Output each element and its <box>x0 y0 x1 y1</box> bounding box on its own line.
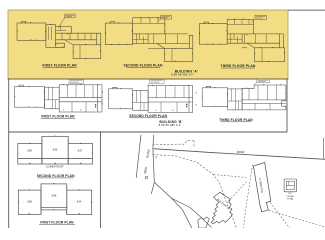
svg-text:ROAD: ROAD <box>145 148 151 158</box>
penthouse first floor dimension ticks <box>19 184 92 214</box>
svg-text:ROAD: ROAD <box>237 150 245 154</box>
building B third floor callout box <box>254 79 269 85</box>
building B third floor dimension ticks <box>202 85 285 110</box>
new road left edge <box>136 135 141 178</box>
building A footprint <box>253 162 270 212</box>
building A third floor dimension ticks <box>200 19 285 61</box>
catch basin mark <box>146 176 148 179</box>
svg-text:FIRST FLOOR PLAN: FIRST FLOOR PLAN <box>41 115 75 119</box>
svg-text:8.88: 8.88 <box>27 151 32 153</box>
middle band right border <box>286 79 288 132</box>
driveway branch line <box>172 198 212 227</box>
svg-text:8.88 89.985 S.F.: 8.88 89.985 S.F. <box>171 73 194 77</box>
sheet top edge line (right of yellow band) <box>288 9 325 11</box>
svg-text:8.88: 8.88 <box>27 202 32 204</box>
svg-text:SECOND FLOOR PLAN: SECOND FLOOR PLAN <box>129 114 167 118</box>
svg-text:THIRD FLOOR PLAN: THIRD FLOOR PLAN <box>221 64 256 68</box>
building A second floor dimension ticks <box>106 18 193 62</box>
svg-text:THIRD FLOOR PLAN: THIRD FLOOR PLAN <box>219 118 253 122</box>
building A second floor callout box <box>157 15 171 21</box>
svg-text:TOTAL: TOTAL <box>287 197 295 200</box>
yellow highlight band <box>8 10 288 79</box>
property diagonal line <box>154 182 192 228</box>
svg-text:30: 30 <box>156 155 159 159</box>
penthouse second floor dimension ticks <box>18 136 92 163</box>
building B second floor callout box <box>147 80 164 86</box>
building B third floor plan outline <box>202 85 286 110</box>
building A second floor plan outline <box>105 18 193 62</box>
building B second floor plan outline <box>109 86 193 113</box>
dashed parking line east toward sheet corner <box>269 211 325 228</box>
yellow band bottom border <box>8 78 288 80</box>
svg-text:SECOND FLOOR PLAN: SECOND FLOOR PLAN <box>37 174 75 178</box>
building A first floor dimension ticks <box>17 23 100 59</box>
building A first floor callout box <box>58 14 75 28</box>
building B first floor callout box <box>66 80 84 87</box>
building A first floor plan outline <box>17 21 101 58</box>
middle band left border <box>8 79 10 228</box>
svg-text:8.88 89.985 S.F.: 8.88 89.985 S.F. <box>159 123 182 127</box>
building B footprint <box>211 192 232 224</box>
building B first floor dimension ticks <box>15 85 103 111</box>
penthouse first floor plan outline <box>18 184 91 215</box>
building B first floor plan outline <box>15 85 102 112</box>
svg-text:8.88: 8.88 <box>52 196 57 198</box>
dashed crossing boundary <box>227 182 247 203</box>
sheet right edge (site plan) <box>323 138 325 159</box>
svg-text:NEW: NEW <box>143 166 148 174</box>
middle band bottom border <box>9 131 287 133</box>
svg-text:BUILDING 'B': BUILDING 'B' <box>216 198 230 210</box>
bottom-left box right border <box>100 132 102 228</box>
building A third floor callout box <box>251 15 266 23</box>
svg-text:SECOND FLOOR PLAN: SECOND FLOOR PLAN <box>124 63 163 67</box>
penthouse second floor plan outline <box>18 136 93 164</box>
svg-text:FIRST FLOOR PLAN: FIRST FLOOR PLAN <box>42 63 77 67</box>
svg-text:8.88: 8.88 <box>53 150 58 152</box>
dashed parcel boundary (west side) <box>153 155 237 228</box>
dashed parking line southeast of building A <box>270 203 289 229</box>
building B second floor dimension ticks <box>109 85 196 110</box>
road centerline (east-west) <box>153 149 325 160</box>
svg-text:8.87: 8.87 <box>78 151 83 153</box>
dashed line west of building A <box>244 165 253 229</box>
site legend box <box>284 179 297 192</box>
dashed setback line (north of road) <box>153 141 195 148</box>
new road right edge <box>151 135 154 194</box>
road name label on centerline <box>236 150 246 154</box>
svg-text:8.84: 8.84 <box>77 202 82 204</box>
svg-text:BUILDING 'A': BUILDING 'A' <box>259 177 264 193</box>
svg-text:FIRST FLOOR PLAN: FIRST FLOOR PLAN <box>40 220 74 224</box>
dashed interior lot line <box>214 175 247 178</box>
svg-text:LOWER ROOF: LOWER ROOF <box>46 165 64 168</box>
accessory building footprint <box>198 217 209 228</box>
building A third floor plan outline <box>199 19 284 61</box>
